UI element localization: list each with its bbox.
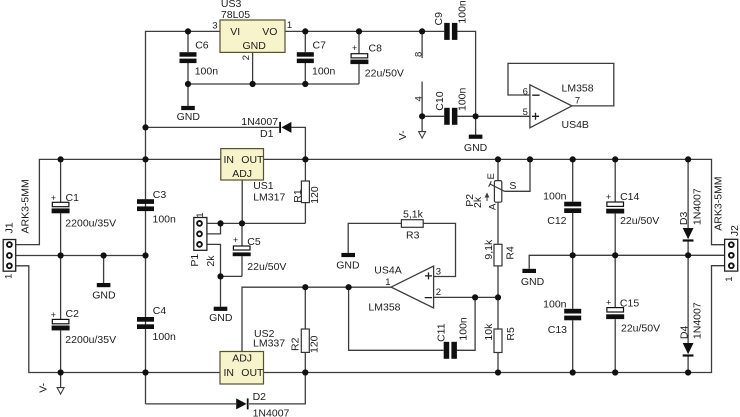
- svg-text:OUT: OUT: [241, 367, 264, 379]
- wire C7 leads: [304, 31, 306, 52]
- wire C11 feedback branch: [349, 287, 444, 350]
- svg-text:VO: VO: [262, 26, 277, 38]
- wire P1 pin3 to GND: [207, 244, 221, 306]
- svg-text:3: 3: [212, 21, 217, 32]
- svg-text:100n: 100n: [457, 0, 469, 24]
- svg-text:C2: C2: [66, 308, 80, 320]
- ground symbol under C6: [177, 106, 201, 123]
- ground symbol under C9/C10: [464, 135, 488, 154]
- svg-text:22u/50V: 22u/50V: [247, 261, 286, 273]
- svg-text:E: E: [486, 173, 497, 179]
- svg-text:C6: C6: [195, 40, 209, 52]
- svg-text:+: +: [51, 310, 56, 320]
- svg-text:IN: IN: [224, 154, 235, 166]
- svg-text:5,1k: 5,1k: [403, 209, 424, 221]
- svg-text:22u/50V: 22u/50V: [365, 68, 404, 80]
- wire US4 pin8 supply stub: [421, 31, 423, 58]
- capacitor C5: [233, 246, 251, 256]
- svg-text:C13: C13: [548, 324, 567, 336]
- capacitor C3: [137, 199, 154, 211]
- wire US4B pin5 input: [476, 115, 530, 117]
- regulator US3 78L05: [220, 20, 285, 52]
- svg-text:1: 1: [724, 276, 735, 281]
- capacitor C11: [444, 342, 457, 359]
- op-amp US4B: [530, 85, 572, 128]
- regulator US1 LM317: [221, 149, 264, 180]
- svg-text:1: 1: [3, 274, 14, 279]
- svg-text:100n: 100n: [153, 331, 177, 343]
- ground symbol mid-left: [92, 283, 116, 302]
- svg-text:D2: D2: [253, 391, 267, 403]
- wire V- stub left: [60, 373, 62, 388]
- wire P1 wiper link: [207, 223, 221, 234]
- svg-text:US1: US1: [253, 180, 274, 192]
- potentiometer P2 body: [485, 181, 504, 203]
- wire C14/C15 column: [614, 159, 616, 202]
- op-amp US4A: [391, 266, 434, 308]
- capacitor C12: [564, 202, 581, 213]
- svg-text:C8: C8: [369, 43, 383, 55]
- svg-text:R5: R5: [505, 327, 517, 341]
- svg-text:100n: 100n: [312, 66, 336, 78]
- svg-text:GND: GND: [464, 142, 488, 154]
- wire R1 leads: [304, 159, 306, 181]
- svg-text:S: S: [509, 180, 516, 192]
- connector J1: [3, 240, 16, 272]
- svg-text:VI: VI: [230, 26, 240, 38]
- svg-text:1N4007: 1N4007: [241, 116, 278, 128]
- V- arrow bottom-left: [57, 388, 64, 395]
- svg-text:4: 4: [414, 96, 425, 101]
- wire C8 leads: [358, 31, 360, 53]
- svg-text:120: 120: [309, 186, 321, 204]
- svg-text:100n: 100n: [195, 66, 219, 78]
- diode D2: [236, 398, 248, 409]
- wire 78L05 VO output to C9: [285, 30, 444, 32]
- svg-text:+: +: [606, 192, 611, 202]
- connector J2: [725, 239, 738, 271]
- svg-text:22u/50V: 22u/50V: [620, 215, 659, 227]
- svg-text:1: 1: [287, 20, 292, 31]
- svg-text:D3: D3: [678, 212, 690, 226]
- wire -OUT rail to J2 pin3: [264, 266, 725, 373]
- svg-text:ARK3-5MM: ARK3-5MM: [713, 176, 725, 230]
- wire C5 bottom to GND node: [221, 275, 243, 277]
- wire C10 links: [422, 115, 444, 117]
- svg-text:7: 7: [575, 96, 580, 107]
- wire +OUT rail to J2 pin1: [264, 159, 725, 244]
- svg-text:ADJ: ADJ: [232, 168, 252, 180]
- svg-text:+: +: [606, 298, 611, 308]
- wire R2 leads: [304, 287, 306, 329]
- V- arrow for pin4: [419, 132, 426, 139]
- svg-text:1: 1: [195, 213, 206, 218]
- svg-text:1N4007: 1N4007: [691, 188, 703, 225]
- svg-text:D4: D4: [678, 326, 690, 340]
- svg-text:US4B: US4B: [562, 119, 589, 131]
- wire D2 branch: [146, 403, 237, 405]
- wire P2 wiper to +OUT rail: [505, 159, 531, 191]
- capacitor C8: [350, 54, 368, 64]
- svg-text:2200u/35V: 2200u/35V: [65, 334, 116, 346]
- svg-text:GND: GND: [177, 111, 201, 123]
- capacitor C13: [564, 309, 581, 321]
- svg-text:C1: C1: [66, 192, 80, 204]
- wire US4B feedback loop pin6 to pin7: [508, 63, 614, 106]
- svg-text:A: A: [488, 203, 499, 210]
- capacitor C4: [137, 317, 154, 329]
- svg-text:78L05: 78L05: [221, 9, 250, 21]
- resistor R2: [301, 329, 309, 352]
- svg-text:9,1k: 9,1k: [483, 239, 495, 260]
- wire C9 right to GND elbow: [457, 31, 475, 134]
- svg-text:GND: GND: [243, 40, 267, 52]
- svg-text:2200u/35V: 2200u/35V: [65, 218, 116, 230]
- svg-text:2k: 2k: [472, 196, 484, 208]
- svg-text:LM358: LM358: [368, 302, 400, 314]
- wire US4A pin3 to R3 to GND: [423, 223, 455, 276]
- svg-text:+: +: [352, 43, 357, 53]
- svg-text:+: +: [51, 193, 56, 203]
- wire GND bus under 78L05: [188, 83, 359, 85]
- svg-text:R2: R2: [290, 337, 302, 351]
- svg-text:100n: 100n: [457, 87, 469, 111]
- svg-text:R1: R1: [292, 189, 304, 203]
- svg-text:OUT: OUT: [241, 154, 264, 166]
- svg-text:R3: R3: [406, 230, 420, 242]
- wire US4A pin2 to R4/R5 node: [434, 296, 498, 298]
- svg-text:C3: C3: [153, 189, 167, 201]
- wire J1 pin3 to -IN rail: [16, 266, 220, 373]
- ground symbol under P1: [209, 307, 233, 324]
- svg-text:C15: C15: [620, 298, 639, 310]
- svg-text:C5: C5: [247, 236, 261, 248]
- svg-text:V-: V-: [37, 382, 49, 392]
- svg-text:100n: 100n: [543, 190, 567, 202]
- capacitor C9: [444, 23, 457, 40]
- wire US2 ADJ to US4A output: [242, 287, 391, 351]
- capacitor C1: [52, 202, 70, 213]
- svg-text:US4A: US4A: [374, 264, 401, 276]
- svg-text:D1: D1: [260, 128, 274, 140]
- capacitor C15: [606, 308, 624, 319]
- svg-text:ADJ: ADJ: [232, 352, 252, 364]
- svg-text:J2: J2: [729, 225, 740, 236]
- svg-text:C12: C12: [547, 215, 566, 227]
- svg-text:GND: GND: [336, 259, 360, 271]
- resistor R4: [494, 244, 502, 266]
- svg-text:8: 8: [414, 52, 425, 57]
- svg-text:C7: C7: [313, 40, 327, 52]
- wire GND elbow and mid GND rail to J2 pin2: [529, 255, 724, 268]
- svg-text:ARK3-5MM: ARK3-5MM: [20, 179, 32, 233]
- svg-text:C4: C4: [153, 305, 167, 317]
- wire J1 pin2 mid rail: [16, 255, 146, 257]
- wire US3 pin2 GND stub: [252, 52, 254, 84]
- svg-text:100n: 100n: [543, 299, 567, 311]
- ground symbol under R3: [336, 253, 360, 272]
- svg-text:R4: R4: [505, 246, 517, 260]
- wire D3/D4 column: [687, 159, 689, 228]
- svg-text:100n: 100n: [153, 213, 177, 225]
- svg-text:1N4007: 1N4007: [691, 302, 703, 339]
- svg-text:C10: C10: [434, 91, 446, 110]
- capacitor C14: [606, 202, 624, 214]
- wire C12/C13 column: [572, 159, 574, 201]
- svg-text:V-: V-: [397, 130, 409, 140]
- svg-text:J1: J1: [3, 222, 15, 233]
- svg-text:2: 2: [241, 55, 252, 60]
- svg-text:2k: 2k: [205, 255, 217, 267]
- capacitor C10: [444, 108, 457, 125]
- trimmer P1: [194, 218, 207, 251]
- svg-text:C11: C11: [435, 323, 447, 342]
- wire C3/C4 vertical column (VI net / rails crossing): [146, 31, 221, 404]
- svg-text:IN: IN: [224, 367, 235, 379]
- svg-text:2: 2: [436, 287, 441, 298]
- svg-text:1: 1: [385, 277, 390, 288]
- wire C6 top lead: [187, 31, 189, 52]
- svg-text:10k: 10k: [483, 323, 495, 341]
- ground symbol output mid rail: [521, 269, 545, 288]
- wire US1 ADJ node: [207, 222, 306, 224]
- wire C5 leads: [241, 223, 243, 246]
- resistor R1: [301, 181, 309, 203]
- svg-text:C14: C14: [620, 191, 639, 203]
- regulator US2 LM337: [220, 352, 264, 385]
- wire V- stub top: [421, 116, 423, 131]
- capacitor C2: [52, 319, 70, 330]
- svg-text:3: 3: [436, 267, 441, 278]
- svg-text:22u/50V: 22u/50V: [621, 323, 660, 335]
- svg-text:C9: C9: [433, 12, 445, 26]
- capacitor C6: [180, 52, 197, 63]
- svg-text:6: 6: [523, 86, 528, 97]
- capacitor C7: [297, 52, 314, 63]
- wire P2/R4/R5 column leads: [497, 159, 499, 180]
- wire D1 branch (OUT to IN protection): [146, 126, 280, 128]
- svg-text:GND: GND: [92, 290, 116, 302]
- wire C6 bottom lead + GND stem: [187, 63, 189, 106]
- diode D4: [683, 343, 694, 357]
- svg-text:LM337: LM337: [253, 338, 285, 350]
- svg-text:LM358: LM358: [562, 82, 594, 94]
- svg-text:1N4007: 1N4007: [253, 408, 290, 417]
- svg-text:GND: GND: [209, 312, 233, 324]
- resistor R3: [401, 220, 423, 228]
- wire J1 pin1 to +IN rail: [16, 159, 221, 244]
- svg-text:120: 120: [309, 335, 321, 353]
- svg-text:P1: P1: [189, 254, 201, 267]
- diode D3: [683, 228, 694, 242]
- resistor R5: [494, 329, 502, 353]
- wire GND stem mid-left: [103, 256, 105, 284]
- diode D1: [279, 122, 291, 133]
- svg-text:5: 5: [523, 107, 528, 118]
- svg-text:100n: 100n: [457, 317, 469, 341]
- svg-text:+: +: [233, 235, 238, 245]
- svg-text:GND: GND: [521, 276, 545, 288]
- wire US4 pin4 supply stub: [421, 82, 423, 117]
- wire C1 C2 column: [60, 159, 62, 202]
- svg-text:LM317: LM317: [253, 192, 285, 204]
